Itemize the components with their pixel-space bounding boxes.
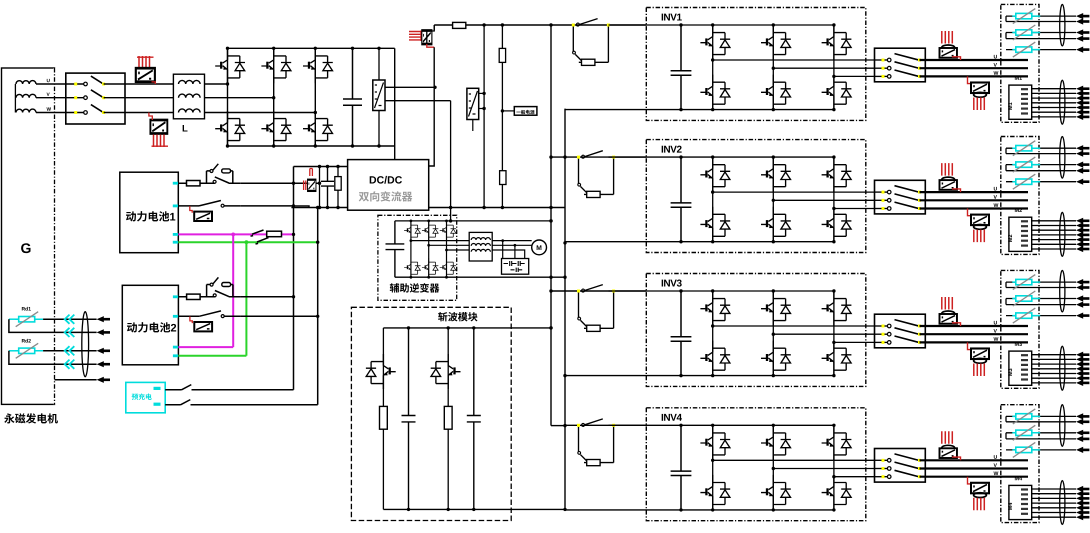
wire sensor to + rail — [319, 167, 321, 208]
arrow line C — [97, 348, 110, 354]
wire battery riser 2 — [317, 208, 319, 405]
label 预充电 — [132, 394, 138, 400]
node rectifier phase 2 — [272, 96, 275, 99]
wire battery - bus right — [429, 207, 565, 209]
arrow line D — [97, 361, 110, 367]
wire battery2 charge - (green) — [178, 355, 246, 357]
inverter INV1 — [565, 8, 875, 121]
generator winding phase U — [16, 81, 36, 84]
chopper IGBT — [366, 354, 396, 389]
battery1 terminal mark — [173, 205, 178, 208]
contactor K1 pole — [74, 90, 105, 100]
current sensor TA2 — [149, 113, 167, 134]
wire DC+ feed INV2 — [551, 156, 646, 158]
main DC+ bus vertical — [550, 25, 552, 426]
chopper brake resistor — [444, 406, 452, 429]
thermistor Rd2 — [9, 350, 19, 352]
wire precharge line 1 — [165, 389, 293, 391]
phase label V — [47, 93, 50, 96]
chevron on line B — [65, 328, 75, 337]
current sensor battery + red marks — [304, 169, 313, 191]
arrow line B — [97, 329, 110, 335]
wire battery1 + to bus — [240, 182, 319, 184]
chevron on line A — [65, 315, 75, 324]
wire to control supply box — [502, 110, 514, 112]
wire battery2 - to riser — [240, 315, 317, 317]
aux transformer winding — [471, 244, 490, 246]
generator contactor box K1 — [66, 73, 125, 124]
reactor label L — [183, 125, 188, 132]
rectifier leg 1 vertical — [227, 48, 229, 146]
battery2 main contactor assembly — [178, 277, 240, 299]
arrow line E — [97, 377, 110, 383]
battery1 terminal mark — [173, 182, 178, 185]
label M4 rotated — [1008, 503, 1012, 510]
wire Rd2 return — [9, 351, 97, 364]
switch on green wire — [256, 238, 269, 244]
precharge contactor INV3 — [577, 285, 615, 332]
aux top rail — [395, 220, 551, 222]
fuse F1 on DC bus — [453, 22, 466, 28]
chopper capacitor — [467, 328, 481, 510]
label M2 small — [1015, 208, 1019, 212]
precharge contactor INV4 — [577, 419, 615, 466]
rectifier leg 2 vertical — [273, 48, 275, 146]
aux cap drop 1 — [502, 241, 504, 259]
wire DC link vertical to DC/DC — [429, 47, 435, 166]
rectifier DC- rail — [228, 145, 395, 147]
precharge contactor INV2 — [577, 151, 615, 198]
wire reactor to rectifier U — [205, 83, 228, 85]
main DC- bus vertical — [564, 109, 566, 510]
aux bottom rail — [395, 276, 565, 278]
wire contactor K1 output — [104, 112, 174, 114]
thermistor Rd1 — [9, 318, 19, 320]
aux cap bank caps — [504, 261, 525, 272]
battery1 main contactor assembly — [178, 164, 240, 186]
node rectifier phase 1 — [226, 82, 229, 85]
aux IGBT bottom 2 — [422, 258, 438, 277]
chopper top bus — [383, 327, 551, 329]
voltage sensor V2 — [467, 88, 479, 131]
node aux leg 3 — [445, 220, 448, 223]
wire contactor K1 output — [104, 83, 174, 85]
current sensor TV red hatch — [409, 31, 421, 42]
aux inverter leg 1 — [410, 221, 412, 277]
aux transformer winding — [471, 249, 490, 251]
aux inverter leg 3 — [446, 221, 448, 277]
generator cable ellipse — [82, 312, 89, 377]
rectifier IGBT top 2 — [261, 48, 291, 83]
aux capacitor bank box — [502, 259, 529, 275]
label Rd1 — [22, 307, 25, 310]
aux IGBT bottom 3 — [440, 258, 456, 277]
aux inverter leg 2 — [428, 221, 430, 277]
battery1 negative contactor — [178, 201, 240, 222]
label M2 rotated — [1008, 235, 1012, 242]
generator label G — [21, 243, 30, 253]
wire green riser — [245, 242, 247, 356]
node aux leg 2 — [427, 220, 430, 223]
rectifier IGBT bottom 1 — [215, 111, 245, 146]
aux IGBT top 1 — [404, 221, 420, 240]
aux DC+ feed — [450, 208, 452, 221]
wire battery + rail — [294, 166, 348, 168]
rectifier DC+ rail — [228, 47, 395, 49]
rectifier IGBT bottom 2 — [261, 111, 291, 146]
current sensor TV — [422, 25, 434, 47]
wire magenta riser — [232, 234, 234, 347]
label INV3 — [662, 280, 663, 287]
switch precharge 1 — [182, 385, 192, 390]
chopper brake resistor — [380, 406, 388, 429]
label INV1 — [662, 14, 663, 21]
label 动力电池1 — [126, 211, 136, 221]
node bus taps — [482, 23, 485, 26]
label 永磁发电机 — [4, 413, 14, 423]
wire DC top bus — [434, 24, 551, 26]
wire Rd1 line A — [43, 318, 97, 320]
wire ground line E — [55, 379, 97, 381]
wire V1 bottom pin — [378, 111, 380, 147]
wire DC+ feed INV4 — [565, 424, 646, 426]
aux IGBT top 2 — [422, 221, 438, 240]
battery1 terminal mark — [173, 233, 178, 236]
chopper capacitor — [402, 328, 416, 510]
generator G enclosure — [2, 68, 55, 404]
arrow line A — [97, 316, 110, 322]
precharge box 预充电 — [126, 382, 165, 412]
wire battery1 charge - (green) — [178, 241, 317, 243]
inverter INV2 — [565, 140, 875, 253]
wire rectifier to DC/DC (+) — [394, 48, 396, 159]
aux capacitor — [386, 221, 405, 277]
wire battery2 charge + (magenta) — [178, 346, 233, 348]
wire V2 terminal 2 — [479, 108, 484, 110]
label M3 small — [1015, 342, 1019, 346]
label M1 small — [1015, 76, 1019, 80]
reactor L winding — [179, 109, 201, 113]
wire precharge 1 riser — [293, 389, 295, 391]
wire DC+ feed INV1 — [551, 24, 646, 26]
resistor R2 — [500, 171, 506, 185]
rectifier IGBT top 3 — [303, 48, 333, 83]
current sensor battery + — [308, 180, 316, 191]
DC/DC converter box — [348, 160, 429, 211]
wire battery2 + to riser — [240, 296, 293, 298]
wire winding to contactor (V) — [36, 97, 84, 99]
aux phase wire 2 — [429, 244, 470, 246]
precharge contactor INV1 — [572, 19, 610, 66]
bleed resistor R3 — [337, 167, 339, 208]
label M3 rotated — [1008, 369, 1012, 376]
output/motor section M3 — [875, 270, 1090, 390]
node aux leg 1 — [410, 220, 413, 223]
chopper leg vertical — [447, 328, 449, 407]
label INV2 — [662, 146, 663, 153]
aux motor M — [532, 240, 547, 255]
wire Rd1 return — [9, 319, 97, 332]
aux IGBT bottom 1 — [404, 258, 420, 277]
aux inverter dashed box — [378, 215, 457, 300]
contactor K1 pole — [74, 76, 105, 86]
line reactor box L — [173, 74, 204, 119]
aux output wire 1 — [492, 240, 532, 242]
wire V1 terminal 2 drop — [450, 101, 452, 208]
switch on magenta wire — [251, 230, 264, 236]
wire resistor branch — [501, 25, 503, 208]
wire Rd2 line C — [43, 350, 97, 352]
resistor R1 — [499, 48, 505, 62]
current sensor TA1 red hatch — [137, 56, 154, 69]
generator star-point wire — [14, 84, 16, 113]
wire precharge line 2 — [165, 404, 318, 406]
inverter INV4 — [565, 408, 875, 521]
label 斩波模块 — [438, 312, 447, 321]
aux IGBT top 3 — [440, 221, 456, 240]
label 辅助逆变器 — [390, 283, 399, 292]
aux cap drop 2 — [514, 245, 516, 258]
aux transformer winding — [471, 238, 490, 240]
aux filter transformer box — [469, 232, 492, 261]
reactor L winding — [179, 94, 201, 98]
wire winding to contactor (U) — [36, 83, 84, 85]
contactor K1 pole — [74, 105, 105, 115]
generator winding phase W — [16, 109, 36, 112]
wire battery1 charge + (magenta) — [178, 233, 293, 235]
label M4 small — [1015, 476, 1019, 480]
chevron on line D — [65, 360, 75, 369]
chopper leg vertical — [382, 328, 384, 407]
wire battery - bus left — [291, 207, 347, 209]
wire battery + through sensor — [294, 182, 320, 184]
rectifier IGBT bottom 3 — [303, 111, 333, 146]
wire battery1 - cont — [294, 206, 310, 208]
voltage sensor V1 — [373, 80, 385, 111]
phase label W — [47, 107, 52, 110]
aux phase wire 3 — [447, 249, 470, 251]
wire sense branch 1 — [483, 25, 485, 208]
phase label U — [47, 79, 50, 82]
rectifier IGBT top 1 — [215, 48, 245, 83]
aux output wire 2 — [492, 244, 532, 246]
aux output wire 3 — [492, 250, 525, 259]
battery2 negative contactor — [178, 311, 240, 332]
DC-link capacitor C1 — [343, 48, 362, 146]
label Rd2 — [22, 339, 25, 342]
label 动力电池2 — [127, 322, 137, 332]
battery2 terminal mark — [173, 315, 178, 318]
switch precharge 2 — [181, 400, 191, 405]
rectifier leg 3 vertical — [314, 48, 316, 146]
wire V1 top pin — [378, 48, 380, 80]
wire V1 terminal 2 — [385, 100, 451, 102]
chevron on line C — [65, 346, 75, 355]
generator winding phase V — [16, 94, 36, 97]
filter capacitor C2 — [321, 167, 334, 208]
label M1 rotated — [1008, 102, 1012, 109]
battery box 动力电池1 — [120, 172, 179, 253]
wire DC+ feed INV3 — [551, 290, 646, 292]
battery2 terminal mark — [173, 354, 178, 357]
chopper IGBT — [431, 354, 461, 389]
label INV4 — [662, 414, 663, 421]
current sensor TA1 — [136, 68, 156, 84]
battery box 动力电池2 — [122, 285, 178, 365]
wire battery riser — [293, 167, 295, 390]
wire DC bus corner — [433, 25, 435, 31]
output/motor section M4 — [875, 405, 1090, 525]
precharge terminal marks — [154, 387, 161, 390]
chopper bottom bus — [383, 508, 565, 510]
current sensor TA2 red hatch — [152, 135, 169, 148]
wire V1 terminal 1 — [385, 86, 435, 88]
wire reactor to rectifier W — [205, 112, 316, 114]
battery1 terminal mark — [173, 241, 178, 244]
fuse on magenta wire — [267, 231, 282, 237]
output/motor section M2 — [875, 137, 1090, 257]
battery2 terminal mark — [173, 346, 178, 349]
wire reactor to rectifier V — [205, 97, 274, 99]
wire V2 terminal 1 — [479, 92, 484, 94]
wire winding to contactor (W) — [36, 112, 84, 114]
wire INV4+ jog — [551, 425, 565, 427]
chopper dashed box — [351, 307, 511, 520]
wire battery1 - to bus — [240, 205, 293, 207]
reactor L winding — [179, 80, 201, 84]
control supply box 一般电源 — [514, 107, 537, 116]
aux phase wire 1 — [411, 240, 469, 242]
label 双向变流器 — [359, 192, 369, 201]
label DC/DC — [370, 176, 376, 183]
node rectifier phase 3 — [314, 111, 317, 114]
battery2 terminal mark — [173, 295, 178, 298]
inverter INV3 — [565, 274, 875, 387]
output/motor section M1 — [875, 4, 1090, 124]
wire contactor K1 output — [104, 97, 174, 99]
